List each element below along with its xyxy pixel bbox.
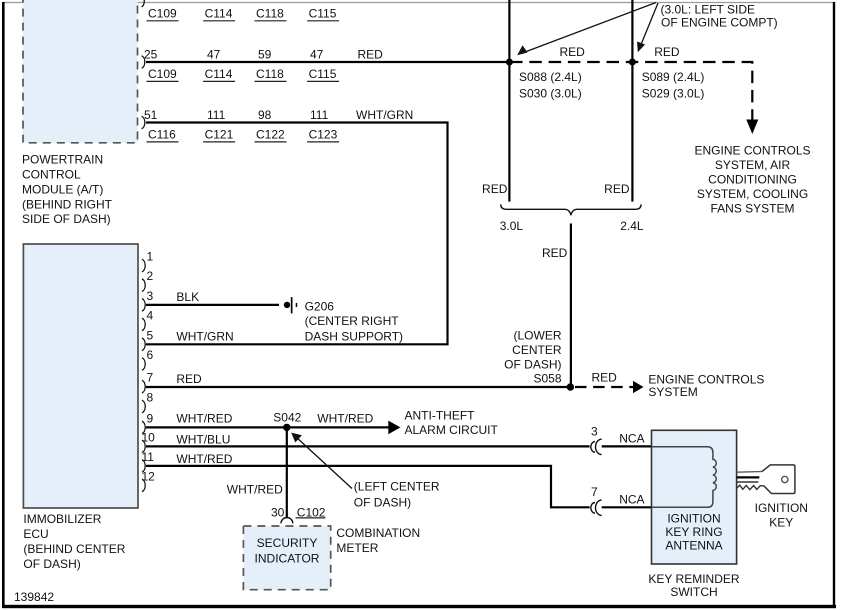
- arrow from (LEFT CENTER OF DASH) to S042: [291, 433, 352, 489]
- svg-text:30: 30: [271, 505, 285, 519]
- arrowhead down to engine controls: [746, 120, 758, 135]
- pin numbers 25 47 59 47: [144, 47, 324, 61]
- wire WHT/RED pin9 to S042 to arrow: [146, 426, 389, 428]
- svg-text:G206: G206: [305, 300, 335, 314]
- svg-text:6: 6: [147, 348, 154, 362]
- label SECURITY INDICATOR: [255, 536, 320, 565]
- svg-text:C118: C118: [256, 7, 284, 21]
- svg-text:C114: C114: [205, 7, 233, 21]
- label (LOWER CENTER OF DASH) S058: [504, 329, 562, 386]
- svg-text:OF ENGINE COMPT): OF ENGINE COMPT): [661, 16, 778, 30]
- wire vertical line from top to splice S089 and down: [631, 0, 633, 202]
- wire vertical line from top to splice S088 and down: [508, 0, 510, 202]
- svg-text:ANTENNA: ANTENNA: [665, 539, 722, 553]
- svg-text:10: 10: [142, 430, 156, 444]
- svg-text:RED: RED: [482, 182, 508, 196]
- PCM pin arc top cut row: [142, 0, 145, 7]
- svg-text:SECURITY: SECURITY: [257, 536, 318, 550]
- pin numbers 51 111 98 111: [144, 108, 329, 122]
- svg-text:ECU: ECU: [23, 527, 48, 541]
- svg-text:NCA: NCA: [619, 493, 644, 507]
- svg-text:KEY RING: KEY RING: [665, 525, 722, 539]
- svg-text:IMMOBILIZER: IMMOBILIZER: [23, 512, 101, 526]
- pin numbers 1-12: [142, 250, 156, 484]
- label S089 S029: [642, 70, 705, 101]
- svg-text:47: 47: [207, 47, 221, 61]
- wire WHT/RED pin11 to corner to connector 7: [146, 466, 590, 507]
- PCM pin arc row 3: [142, 116, 145, 129]
- svg-text:WHT/RED: WHT/RED: [227, 483, 283, 497]
- svg-text:3: 3: [147, 289, 154, 303]
- note (3.0L: LEFT SIDE OF ENGINE COMPT): [661, 2, 778, 29]
- svg-text:C123: C123: [309, 128, 338, 142]
- svg-text:WHT/RED: WHT/RED: [176, 452, 232, 466]
- svg-text:DASH SUPPORT): DASH SUPPORT): [305, 329, 403, 343]
- arrow from note to S088: [517, 3, 656, 56]
- svg-text:C109: C109: [148, 7, 177, 21]
- svg-text:25: 25: [144, 47, 158, 61]
- svg-text:S089 (2.4L): S089 (2.4L): [642, 70, 705, 84]
- wire RED dashed S058 to arrow: [575, 386, 634, 388]
- connector labels C109 C114 C118 C115 row2: [147, 67, 340, 81]
- svg-text:47: 47: [310, 47, 324, 61]
- svg-text:RED: RED: [604, 182, 630, 196]
- svg-text:IGNITION: IGNITION: [667, 512, 720, 526]
- wire RED row2 solid PCM to S088: [146, 61, 510, 63]
- svg-text:POWERTRAIN: POWERTRAIN: [22, 153, 103, 167]
- wire RED pin7 to S058: [146, 386, 570, 388]
- label ANTI-THEFT ALARM CIRCUIT: [405, 409, 499, 438]
- svg-text:METER: METER: [336, 541, 378, 555]
- svg-text:S058: S058: [533, 372, 561, 386]
- svg-text:SYSTEM, AIR: SYSTEM, AIR: [715, 158, 791, 172]
- svg-text:ALARM CIRCUIT: ALARM CIRCUIT: [405, 423, 499, 437]
- svg-text:4: 4: [147, 308, 154, 322]
- connector C102 arc: [281, 518, 293, 524]
- svg-text:KEY REMINDER: KEY REMINDER: [648, 572, 739, 586]
- svg-text:98: 98: [258, 108, 272, 122]
- svg-text:C118: C118: [256, 67, 284, 81]
- label (LEFT CENTER OF DASH): [354, 480, 440, 510]
- svg-text:C121: C121: [205, 128, 234, 142]
- arrowhead engine controls system: [633, 381, 644, 393]
- svg-text:(BEHIND CENTER: (BEHIND CENTER: [23, 542, 125, 556]
- svg-text:RED: RED: [654, 45, 680, 59]
- wire RED center vertical brace to S058: [570, 224, 572, 388]
- svg-text:RED: RED: [176, 372, 202, 386]
- splice S088: [506, 59, 513, 66]
- svg-text:BLK: BLK: [176, 290, 199, 304]
- svg-text:(BEHIND RIGHT: (BEHIND RIGHT: [22, 197, 113, 211]
- immobilizer ECU box: [23, 244, 138, 508]
- svg-text:3: 3: [591, 424, 598, 438]
- wire RED dashed S088 to S089 to corner down arrow: [510, 62, 752, 120]
- label IGNITION KEY RING ANTENNA: [665, 512, 722, 553]
- svg-text:C114: C114: [205, 67, 233, 81]
- svg-text:(LEFT CENTER: (LEFT CENTER: [354, 480, 440, 494]
- label C102: [296, 505, 326, 519]
- label COMBINATION METER: [336, 526, 420, 555]
- splice S058: [567, 383, 574, 390]
- svg-text:IGNITION: IGNITION: [755, 501, 808, 515]
- svg-text:SYSTEM, COOLING: SYSTEM, COOLING: [697, 187, 808, 201]
- svg-text:S088 (2.4L): S088 (2.4L): [519, 70, 582, 84]
- connector labels C109 C114 C118 C115 top row: [147, 7, 340, 21]
- brace 3.0L 2.4L: [501, 204, 641, 215]
- svg-text:C115: C115: [309, 7, 337, 21]
- svg-text:C122: C122: [256, 128, 285, 142]
- svg-text:7: 7: [591, 485, 598, 499]
- svg-text:RED: RED: [542, 246, 568, 260]
- svg-text:KEY: KEY: [769, 516, 793, 530]
- svg-text:12: 12: [142, 469, 156, 483]
- svg-text:111: 111: [207, 108, 226, 122]
- svg-text:ENGINE CONTROLS: ENGINE CONTROLS: [694, 144, 810, 158]
- svg-text:WHT/RED: WHT/RED: [176, 412, 232, 426]
- svg-text:11: 11: [142, 450, 155, 464]
- svg-text:OF DASH): OF DASH): [23, 557, 80, 571]
- label S088 S030: [519, 70, 582, 101]
- ground G206: [284, 297, 297, 313]
- label KEY REMINDER SWITCH: [648, 572, 739, 599]
- svg-text:111: 111: [310, 108, 329, 122]
- svg-text:9: 9: [147, 411, 154, 425]
- svg-text:C109: C109: [148, 67, 177, 81]
- svg-text:WHT/GRN: WHT/GRN: [356, 108, 413, 122]
- svg-text:WHT/RED: WHT/RED: [317, 412, 373, 426]
- svg-text:2: 2: [147, 269, 154, 283]
- svg-text:RED: RED: [592, 370, 618, 384]
- svg-text:5: 5: [147, 328, 154, 342]
- svg-text:MODULE (A/T): MODULE (A/T): [22, 182, 103, 196]
- label IGNITION KEY: [755, 501, 808, 530]
- svg-text:(CENTER RIGHT: (CENTER RIGHT: [305, 314, 400, 328]
- powertrain control module PCM box: [23, 0, 138, 143]
- svg-text:(3.0L: LEFT SIDE: (3.0L: LEFT SIDE: [661, 2, 755, 16]
- svg-text:CONDITIONING: CONDITIONING: [708, 173, 797, 187]
- svg-text:C115: C115: [309, 67, 337, 81]
- svg-text:RED: RED: [358, 47, 384, 61]
- connector pin3 arcs NCA row: [591, 439, 602, 454]
- svg-text:INDICATOR: INDICATOR: [255, 551, 320, 565]
- PCM pin arc row 2: [142, 56, 145, 69]
- ignition key ring antenna box: [652, 430, 737, 564]
- svg-text:SWITCH: SWITCH: [670, 585, 717, 599]
- svg-text:WHT/GRN: WHT/GRN: [176, 330, 233, 344]
- arrowhead anti-theft: [388, 421, 400, 435]
- svg-text:3.0L: 3.0L: [500, 219, 524, 233]
- svg-text:NCA: NCA: [619, 431, 644, 445]
- svg-text:139842: 139842: [14, 590, 54, 604]
- svg-text:S042: S042: [273, 410, 301, 424]
- antenna coil circuit: [652, 447, 717, 508]
- PCM label: [22, 153, 113, 227]
- label G206 (CENTER RIGHT DASH SUPPORT): [305, 300, 403, 344]
- svg-text:2.4L: 2.4L: [620, 219, 644, 233]
- svg-text:59: 59: [258, 47, 272, 61]
- svg-text:(LOWER: (LOWER: [514, 329, 562, 343]
- pin arcs 1-12 immobilizer: [142, 259, 145, 492]
- wire after connector 7 to antenna box: [602, 506, 652, 508]
- wire BLK pin3 to G206: [146, 304, 279, 306]
- splice S089: [629, 59, 636, 66]
- immobilizer ECU label: [23, 512, 125, 571]
- wire WHT/RED S042 down to C102: [286, 427, 288, 518]
- wire after connector 3 to antenna box: [602, 445, 652, 447]
- svg-text:CENTER: CENTER: [512, 343, 562, 357]
- label ENGINE CONTROLS SYSTEM: [648, 372, 764, 399]
- svg-text:51: 51: [144, 108, 158, 122]
- wire WHT/BLU pin10 to connector 3: [146, 445, 590, 447]
- ignition key icon: [737, 465, 795, 494]
- svg-text:RED: RED: [560, 45, 586, 59]
- svg-text:FANS SYSTEM: FANS SYSTEM: [710, 202, 794, 216]
- splice S042: [283, 424, 290, 431]
- connector pin7 arcs NCA row: [591, 500, 602, 515]
- svg-text:S029 (3.0L): S029 (3.0L): [642, 86, 705, 100]
- svg-text:SYSTEM: SYSTEM: [648, 385, 697, 399]
- svg-text:CONTROL: CONTROL: [22, 168, 81, 182]
- svg-text:C116: C116: [148, 128, 176, 142]
- svg-text:WHT/BLU: WHT/BLU: [176, 433, 230, 447]
- svg-text:ANTI-THEFT: ANTI-THEFT: [405, 409, 476, 423]
- svg-text:7: 7: [147, 371, 154, 385]
- svg-text:OF DASH): OF DASH): [504, 358, 561, 372]
- svg-text:8: 8: [147, 391, 154, 405]
- svg-text:COMBINATION: COMBINATION: [336, 526, 420, 540]
- label ENGINE CONTROLS SYSTEM AIR CONDITIONING block: [694, 144, 810, 216]
- connector labels C116 C121 C122 C123: [147, 128, 340, 142]
- svg-text:SIDE OF DASH): SIDE OF DASH): [22, 212, 111, 226]
- svg-text:S030 (3.0L): S030 (3.0L): [519, 86, 582, 100]
- svg-text:1: 1: [147, 250, 154, 264]
- security indicator box: [243, 526, 330, 590]
- arrow from note to S089: [637, 3, 658, 52]
- svg-text:OF DASH): OF DASH): [354, 496, 411, 510]
- wire WHT/GRN row3 to corner and down to immobilizer pin5: [146, 123, 448, 345]
